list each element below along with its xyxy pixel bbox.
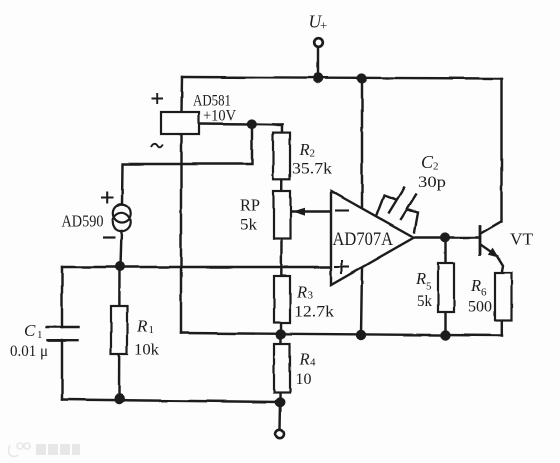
svg-text:R: R: [296, 283, 307, 302]
svg-text:5: 5: [426, 281, 432, 293]
svg-text:R: R: [415, 269, 426, 288]
svg-text:2: 2: [433, 161, 439, 173]
svg-text:10k: 10k: [134, 342, 159, 359]
svg-text:5k: 5k: [240, 217, 257, 234]
svg-text:VT: VT: [510, 230, 534, 249]
svg-text:35.7k: 35.7k: [292, 161, 332, 178]
svg-text:R: R: [136, 317, 148, 336]
svg-text:R: R: [299, 140, 310, 159]
svg-text:30p: 30p: [418, 174, 446, 191]
svg-text:+: +: [320, 18, 327, 33]
svg-text:AD707A: AD707A: [333, 229, 394, 250]
svg-text:0.01 μ: 0.01 μ: [10, 343, 48, 360]
svg-text:1: 1: [149, 324, 155, 336]
svg-text:12.7k: 12.7k: [294, 304, 334, 321]
svg-text:3: 3: [308, 290, 314, 302]
svg-text:4: 4: [310, 357, 316, 369]
svg-text:R: R: [299, 350, 310, 369]
svg-text:5k: 5k: [417, 293, 432, 310]
svg-text:1: 1: [37, 329, 43, 341]
svg-text:+10V: +10V: [203, 108, 236, 125]
svg-text:2: 2: [310, 148, 316, 160]
svg-text:C: C: [24, 321, 36, 340]
svg-text:10: 10: [296, 371, 312, 388]
svg-text:AD590: AD590: [62, 212, 104, 231]
svg-text:6: 6: [481, 287, 487, 299]
svg-text:500: 500: [468, 299, 492, 316]
svg-text:RP: RP: [240, 196, 260, 215]
svg-text:R: R: [470, 276, 481, 295]
